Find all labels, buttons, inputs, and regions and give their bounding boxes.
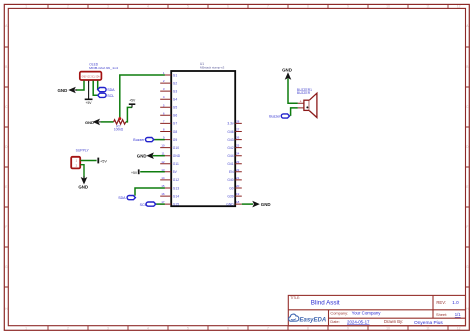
svg-text:Your Company: Your Company: [352, 311, 382, 316]
IC U1 left pins 1-17: [160, 75, 171, 204]
border zone ticks right: [466, 47, 470, 287]
net flag SCL at OLED: [98, 93, 106, 97]
svg-text:25: 25: [236, 144, 240, 148]
supply connector J1 body: [71, 157, 80, 169]
net flag SDA at OLED: [98, 88, 106, 92]
+5V bar flag right of supply: [97, 158, 99, 164]
wire buzzer minus pin to Buzzer flag: [291, 108, 298, 116]
svg-text:G10: G10: [173, 146, 179, 150]
svg-text:Drawn By:: Drawn By:: [384, 319, 403, 324]
svg-text:5: 5: [187, 326, 189, 330]
svg-text:9: 9: [347, 326, 349, 330]
svg-text:10: 10: [386, 326, 390, 330]
svg-text:GND: GND: [137, 153, 147, 158]
ground arrow below supply: [81, 176, 88, 184]
wire IC pin1 G1 to resistor node: [120, 75, 165, 119]
+5V bar flag above resistor: [129, 104, 136, 107]
svg-text:G11: G11: [173, 162, 179, 166]
svg-text:6: 6: [227, 326, 229, 330]
junction node at resistor: [118, 117, 121, 120]
svg-text:9: 9: [347, 5, 349, 9]
svg-text:G44: G44: [227, 154, 233, 158]
svg-text:23: 23: [236, 160, 240, 164]
svg-text:2: 2: [67, 326, 69, 330]
svg-text:7: 7: [267, 5, 269, 9]
svg-text:3.3v: 3.3v: [227, 122, 234, 126]
svg-text:4: 4: [147, 5, 149, 9]
svg-text:G43: G43: [227, 138, 233, 142]
svg-text:28: 28: [236, 119, 240, 123]
svg-text:SDA: SDA: [107, 88, 115, 92]
title block rev cell divider: [432, 295, 434, 318]
svg-text:5: 5: [187, 5, 189, 9]
title block outline: [288, 295, 465, 325]
EasyEDA logo cloud: [289, 314, 299, 321]
svg-text:TITLE:: TITLE:: [290, 296, 300, 300]
svg-text:20: 20: [236, 184, 240, 188]
resistor R1 100k zigzag: [114, 120, 126, 124]
svg-text:8: 8: [307, 326, 309, 330]
wire +5V to IC pin13: [140, 171, 165, 173]
IC U1 left pin names: [173, 73, 181, 206]
svg-text:G4: G4: [173, 98, 178, 102]
OLED pins 1-4: [84, 80, 98, 83]
svg-text:10: 10: [161, 144, 165, 148]
IC U1 right pin numbers: [236, 119, 240, 204]
svg-text:1: 1: [25, 326, 27, 330]
svg-text:SCL: SCL: [107, 94, 114, 98]
svg-text:G39: G39: [227, 194, 233, 198]
wire OLED pin4 to SDA flag: [97, 81, 99, 90]
border zone ticks left: [4, 47, 8, 287]
svg-text:SCL: SCL: [140, 203, 147, 207]
net flag Buzzer at IC pin9: [146, 138, 154, 142]
ground arrow left of resistor: [93, 119, 102, 126]
wire supply pin1 to +5V: [80, 160, 96, 162]
svg-text:7: 7: [267, 326, 269, 330]
svg-text:6: 6: [227, 5, 229, 9]
ground arrow left of OLED: [68, 87, 77, 94]
svg-text:G12: G12: [173, 178, 179, 182]
svg-text:Buzzer: Buzzer: [269, 114, 281, 118]
svg-text:8: 8: [307, 5, 309, 9]
wire SDA flag to IC pin15: [135, 188, 165, 196]
ground arrow right of IC pin18: [252, 201, 259, 208]
svg-text:100kΩ: 100kΩ: [114, 128, 124, 132]
svg-text:Buzzer: Buzzer: [133, 138, 145, 142]
svg-text:EasyEDA: EasyEDA: [300, 317, 327, 323]
svg-text:GND: GND: [173, 154, 181, 158]
IC U1 right pins 28-18: [235, 123, 242, 204]
IC U1 right pin names: [226, 122, 234, 207]
svg-text:GND: GND: [85, 120, 94, 125]
title block logo cell divider: [328, 310, 330, 326]
svg-text:G8: G8: [173, 130, 178, 134]
svg-text:19: 19: [236, 192, 240, 196]
svg-text:G7: G7: [173, 122, 178, 126]
svg-text:G41: G41: [227, 162, 233, 166]
svg-text:4: 4: [147, 326, 149, 330]
svg-text:G: G: [466, 265, 469, 269]
svg-text:10: 10: [386, 5, 390, 9]
wire IC pin18 to GND: [242, 203, 253, 205]
svg-text:11: 11: [426, 5, 430, 9]
svg-text:+5V: +5V: [129, 99, 136, 103]
svg-text:F: F: [5, 225, 7, 229]
svg-text:Date:: Date:: [330, 319, 339, 324]
ground arrow above buzzer: [285, 72, 292, 80]
svg-text:+: +: [300, 100, 302, 104]
svg-text:1: 1: [25, 5, 27, 9]
svg-text:16: 16: [161, 192, 165, 196]
svg-text:G40: G40: [227, 178, 233, 182]
svg-text:18: 18: [236, 200, 240, 204]
svg-text:+5V: +5V: [86, 101, 93, 105]
svg-text:12: 12: [457, 326, 461, 330]
wire OLED pin3 to SCL flag: [93, 81, 97, 96]
svg-text:G15: G15: [173, 202, 179, 206]
+5V bar flag at IC pin13: [138, 169, 140, 174]
svg-text:GND: GND: [261, 202, 271, 207]
wire buzzer plus pin to GND: [288, 79, 298, 104]
wire ground to resistor: [101, 121, 114, 123]
svg-text:21: 21: [236, 176, 240, 180]
net flag SCL at IC pin17: [146, 202, 156, 206]
svg-text:GND: GND: [282, 68, 292, 73]
svg-text:24: 24: [236, 152, 240, 156]
svg-text:22: 22: [236, 168, 240, 172]
svg-text:Sheet:: Sheet:: [436, 312, 447, 317]
svg-text:G13: G13: [173, 186, 179, 190]
svg-text:G3: G3: [173, 89, 178, 93]
svg-text:Company:: Company:: [330, 311, 348, 316]
svg-text:G5: G5: [173, 106, 178, 110]
svg-text:1/1: 1/1: [455, 312, 461, 317]
svg-text:+5V: +5V: [100, 159, 107, 163]
svg-text:GND: GND: [58, 88, 68, 93]
buzzer pins: [298, 103, 304, 108]
svg-text:GND VCC SCL SDA: GND VCC SCL SDA: [82, 75, 100, 79]
svg-text:2024-05-17: 2024-05-17: [347, 319, 370, 324]
net flag SDA at IC pin15: [127, 196, 135, 200]
wire OLED pin2 to +5V bar: [88, 81, 90, 99]
svg-text:11: 11: [426, 326, 430, 330]
wire resistor to +5V: [126, 107, 132, 122]
svg-text:27: 27: [236, 128, 240, 132]
svg-text:G2: G2: [173, 81, 178, 85]
wire Buzzer flag to IC pin9: [154, 139, 165, 141]
svg-text:G6: G6: [173, 114, 178, 118]
IC U1 left pin numbers: [161, 71, 165, 204]
svg-text:14: 14: [161, 176, 165, 180]
title block row line 2: [329, 317, 466, 319]
svg-text:3: 3: [107, 5, 109, 9]
svg-text:BUZZER: BUZZER: [297, 91, 311, 95]
svg-text:GND: GND: [226, 202, 234, 206]
border zone ticks bottom: [48, 326, 448, 331]
svg-text:G46: G46: [227, 130, 233, 134]
svg-text:Onyema Pius: Onyema Pius: [414, 320, 443, 326]
svg-text:G14: G14: [173, 194, 179, 198]
title block row line 1: [288, 309, 465, 311]
border zone ticks top: [48, 4, 448, 8]
wire SCL flag to IC pin17: [156, 203, 165, 205]
net flag Buzzer at buzzer: [281, 114, 289, 118]
svg-text:EN: EN: [229, 170, 234, 174]
svg-text:MDB-0A2.96_1x4: MDB-0A2.96_1x4: [89, 66, 118, 70]
svg-text:M5stack stamp-s3: M5stack stamp-s3: [200, 66, 225, 70]
svg-text:Blind Assit: Blind Assit: [311, 299, 340, 306]
+5V bar flag below OLED pin2: [85, 98, 93, 100]
svg-text:+5V: +5V: [131, 171, 138, 175]
svg-text:G1: G1: [173, 73, 178, 77]
svg-text:12: 12: [161, 160, 165, 164]
IC U1 body: [171, 71, 235, 206]
svg-text:2: 2: [67, 5, 69, 9]
ground arrow at IC pin11: [146, 152, 154, 159]
svg-text:SDA: SDA: [118, 196, 126, 200]
svg-text:GND: GND: [78, 185, 88, 190]
wire OLED pin1 to GND: [76, 81, 84, 90]
OLED module body: [80, 72, 102, 80]
buzzer BUZZER1 speaker symbol: [304, 93, 317, 117]
svg-text:G9: G9: [173, 138, 178, 142]
wire supply pin2 to GND: [80, 165, 84, 180]
svg-text:F: F: [466, 225, 468, 229]
svg-text:12: 12: [457, 5, 461, 9]
svg-text:SUPPLY: SUPPLY: [76, 149, 90, 153]
svg-text:G42: G42: [227, 146, 233, 150]
svg-text:G: G: [5, 265, 8, 269]
svg-text:26: 26: [236, 136, 240, 140]
svg-text:G0: G0: [229, 186, 234, 190]
svg-text:REV:: REV:: [436, 300, 446, 305]
wire GND to IC pin11: [153, 155, 165, 157]
svg-text:1.0: 1.0: [452, 300, 459, 305]
svg-text:3: 3: [107, 326, 109, 330]
